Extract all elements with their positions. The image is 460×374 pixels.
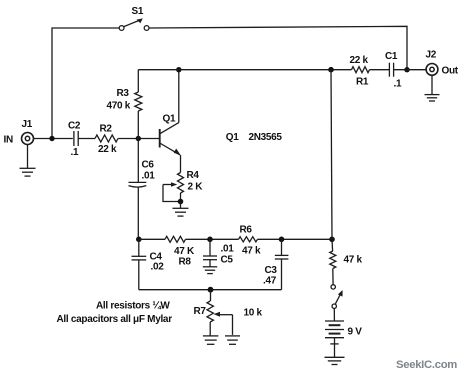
node: C5 junction (207, 237, 213, 243)
wire: C6 to middle rail (137, 187, 139, 240)
wire: R8 to C5 node (186, 238, 239, 240)
svg-text:J1: J1 (22, 119, 33, 130)
node: collector junction (176, 67, 181, 72)
svg-text:R6: R6 (240, 225, 253, 236)
svg-text:47 k: 47 k (344, 255, 363, 266)
wire: R3 to base node (137, 111, 139, 139)
R7 wiper arm (214, 312, 233, 335)
resistor R6 (239, 237, 258, 242)
svg-text:Out: Out (442, 66, 459, 77)
svg-text:.01: .01 (142, 171, 156, 182)
capacitor C2 (74, 131, 78, 146)
connector J1 (22, 133, 34, 145)
node: C3 junction (279, 237, 285, 243)
capacitor C6 (129, 182, 147, 187)
node: R7 junction (208, 287, 214, 293)
ground: under R7 (203, 322, 219, 344)
ground: under J1 (20, 145, 36, 177)
node: base junction (136, 136, 141, 141)
wire: base node down to C6 (137, 139, 139, 183)
svg-text:.02: .02 (151, 262, 165, 273)
wire: middle rail to 47k (331, 239, 334, 251)
resistor R4 (trimmer) (178, 173, 184, 194)
wire: battery to ground (334, 348, 336, 358)
node: middle rail left (136, 237, 142, 243)
wire: collector up to rail (178, 70, 180, 123)
wire: S1 to output node (149, 26, 407, 69)
svg-text:470 k: 470 k (107, 101, 131, 112)
svg-text:.01: .01 (221, 244, 235, 255)
svg-text:R4: R4 (187, 170, 200, 181)
svg-text:R1: R1 (356, 77, 369, 88)
wire: C3 leads (281, 239, 283, 255)
resistor R3 (135, 92, 142, 111)
R4 wiper arm (163, 182, 181, 201)
wire: R6 to right (258, 238, 333, 240)
wire: C2 to R2 (78, 138, 95, 140)
svg-text:Q1 2N3565: Q1 2N3565 (226, 132, 283, 143)
svg-text:22 k: 22 k (350, 55, 369, 66)
svg-text:C3: C3 (265, 265, 278, 276)
wire: R1 to C1 (370, 69, 390, 71)
svg-text:R2: R2 (100, 124, 113, 135)
wire: switch to battery (333, 308, 335, 321)
wire: rail corner to R3 (137, 70, 139, 92)
node: bypass/output junction (404, 67, 409, 72)
wire: R7 top lead (210, 290, 212, 301)
svg-text:22 k: 22 k (98, 144, 117, 155)
ground: battery negative (325, 357, 345, 364)
battery 9V (325, 321, 344, 348)
svg-text:C5: C5 (221, 255, 234, 266)
wire: C4 top/bottom (138, 239, 140, 256)
svg-text:10 k: 10 k (244, 308, 263, 319)
svg-text:R8: R8 (179, 257, 192, 268)
svg-text:47 k: 47 k (242, 246, 261, 257)
resistor R1 (352, 67, 370, 73)
wire: middle rail (139, 238, 165, 240)
wire: right branch vertical (rail to middle rail) (331, 70, 332, 240)
node: R4 bottom junction (178, 199, 184, 205)
resistor R7 (trimmer) (207, 301, 213, 322)
node: right branch junction (329, 237, 335, 243)
capacitor C3 (275, 255, 289, 259)
svg-text:2 K: 2 K (188, 182, 204, 193)
resistor R8 (165, 236, 186, 242)
svg-text:C2: C2 (68, 121, 81, 132)
capacitor C5 (203, 256, 217, 260)
svg-text:S1: S1 (132, 6, 144, 17)
svg-text:IN: IN (4, 135, 13, 146)
svg-text:J2: J2 (426, 50, 437, 61)
wire: output rail (138, 69, 351, 71)
resistor R2 (95, 135, 118, 142)
ground: under R7 wiper (225, 336, 240, 344)
wire: C5 leads (209, 239, 211, 256)
resistor 47k (supply) (330, 251, 336, 269)
svg-text:.47: .47 (263, 276, 277, 287)
svg-text:SeekIC.com: SeekIC.com (396, 359, 457, 371)
connector J2 (426, 64, 438, 76)
ground: under J2 (425, 75, 440, 101)
capacitor C4 (132, 256, 147, 260)
svg-text:9 V: 9 V (348, 327, 363, 338)
switch S1 (119, 18, 149, 30)
svg-text:.1: .1 (394, 79, 402, 90)
ground: under R4 (173, 202, 189, 217)
transistor Q1 (160, 123, 181, 156)
svg-text:.1: .1 (71, 147, 79, 158)
svg-text:R3: R3 (117, 88, 130, 99)
svg-text:Q1: Q1 (163, 114, 176, 125)
svg-text:C6: C6 (142, 160, 155, 171)
svg-text:All capacitors all μF Mylar: All capacitors all μF Mylar (57, 314, 173, 325)
wire: R4 bottom (180, 193, 182, 203)
wire: C1 to J2 (394, 69, 427, 71)
node: input junction (49, 136, 54, 141)
wire: bottom rail (139, 289, 282, 291)
svg-text:All resistors ¼W: All resistors ¼W (96, 301, 170, 312)
capacitor C1 (389, 63, 393, 77)
svg-text:R7: R7 (194, 306, 207, 317)
wire: emitter to R4 (180, 155, 182, 173)
node: rail to lower branch (328, 67, 334, 73)
wire: 47k to switch (332, 269, 334, 285)
wire: J1 to C2 (34, 138, 73, 140)
switch: power on/off (331, 285, 343, 309)
svg-text:47 K: 47 K (174, 246, 195, 257)
ground: under C5 (203, 267, 217, 274)
svg-text:C1: C1 (385, 51, 398, 62)
wire: S1 bypass top left vertical (52, 28, 119, 139)
wire: R2 to Q1 base (118, 138, 159, 140)
